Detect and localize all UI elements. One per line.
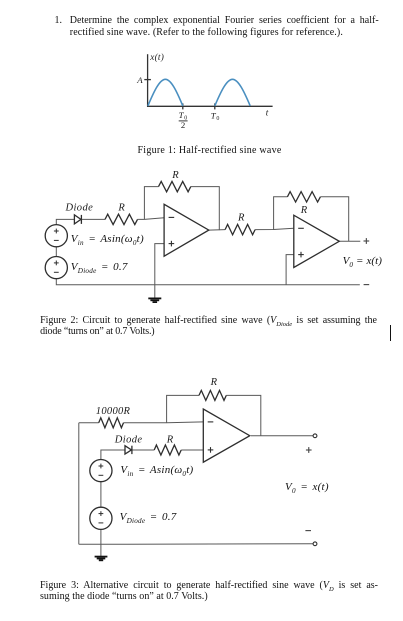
wire: U1 output to mid resistor and to U2 inverting input — [209, 228, 294, 230]
problem text line 2 — [70, 28, 343, 38]
voltage source Vin fig3 — [90, 460, 112, 482]
voltage source VDiode fig3 — [90, 507, 112, 529]
output - terminal circle fig3 — [313, 542, 317, 546]
label VDiode fig3 — [120, 512, 177, 523]
resistor R series input — [105, 214, 138, 224]
wire: VDiode to bottom rail — [100, 529, 102, 544]
wire: U2 feedback right side down to output — [320, 197, 348, 242]
label Vin fig3 — [120, 465, 193, 476]
x-axis (t axis) of figure 1 — [147, 105, 273, 107]
label x(t) — [149, 52, 164, 62]
wire: diode branch to U3 non-inverting input — [101, 450, 203, 459]
caption figure 1 — [138, 146, 282, 156]
wire: input node from sources through diode branch to op-amp U1 inverting input — [56, 218, 164, 225]
resistor R feedback U2 — [287, 192, 320, 202]
diode D2 — [125, 446, 132, 454]
wire: U1 non-inverting input to ground node — [155, 244, 164, 285]
ground — [148, 285, 161, 302]
svg-text:R: R — [166, 434, 174, 445]
label t — [266, 108, 269, 118]
output + terminal label fig2 — [364, 238, 370, 244]
resistor R between op-amps — [225, 224, 255, 234]
label A — [136, 75, 143, 85]
label T0 — [211, 110, 220, 122]
ground fig3 — [95, 544, 108, 560]
label R between op-amps — [237, 213, 245, 224]
y-axis of figure 1 — [147, 54, 149, 107]
wire: between source Vin and source VDiode — [55, 247, 57, 257]
output - label fig3 — [305, 530, 311, 532]
svg-text:10000R: 10000R — [96, 406, 131, 417]
sine hump 1 — [148, 79, 183, 106]
label R feedback U2 — [300, 205, 308, 216]
amplitude tick A — [144, 79, 151, 81]
caption figure 3 line 1 — [40, 581, 378, 591]
wire: left rail of figure 3 — [78, 423, 80, 545]
wire: U3 feedback right side down to output — [226, 395, 260, 435]
caption figure 3 line 2 — [40, 592, 208, 602]
label T0/2 fraction — [179, 110, 188, 130]
wire: U2 non-inverting input down to bottom rail — [286, 255, 294, 285]
wire: U2 output to + terminal — [339, 240, 360, 242]
diode D1 — [74, 215, 81, 224]
wire: U3 feedback left vertical — [167, 395, 199, 422]
label Vin = Asin(w0t) — [71, 234, 144, 245]
output + label fig3 — [306, 447, 312, 453]
label Diode fig3 — [114, 434, 143, 445]
wire: U1 feedback right side down to output — [191, 187, 220, 231]
caption figure 2 line 1 — [40, 316, 377, 326]
tick T0/2 — [182, 103, 184, 109]
output + terminal circle fig3 — [313, 434, 317, 438]
resistor R feedback U3 — [199, 390, 226, 400]
wire: 10000R branch to U3 inverting input — [79, 421, 204, 424]
label VDiode = 0.7 — [71, 262, 128, 273]
resistor R diode branch fig3 — [154, 445, 181, 455]
op-amp U1 — [164, 204, 209, 256]
voltage source VDiode (0.7V) — [45, 257, 67, 279]
wire: bottom rail — [56, 279, 360, 285]
label 10000R — [96, 406, 131, 417]
label R feedback U1 — [171, 170, 179, 181]
op-amp U2 — [294, 215, 340, 267]
label V0 = x(t) fig3 — [285, 482, 329, 493]
label Diode — [65, 202, 94, 213]
label R series input — [117, 202, 125, 213]
problem item number — [55, 16, 63, 26]
label R feedback U3 — [210, 377, 218, 388]
tick T0 — [214, 103, 216, 109]
caption figure 2 line 2 — [40, 327, 154, 337]
text cursor bar — [390, 325, 391, 341]
problem text line 1 — [70, 16, 379, 26]
label R diode branch fig3 — [166, 434, 174, 445]
label V0 = x(t) fig2 — [343, 256, 382, 267]
voltage source Vin (Asin(w0t)) — [45, 225, 67, 247]
svg-text:Diode: Diode — [114, 434, 143, 445]
wire: bottom rail fig3 — [79, 543, 313, 546]
output - terminal label fig2 — [364, 284, 370, 286]
op-amp U3 — [203, 409, 250, 462]
wire: U2 feedback left vertical — [274, 197, 288, 230]
wire: between source Vin and source VDiode fig3 — [100, 482, 102, 508]
wire: U1 feedback left vertical — [144, 187, 158, 220]
sine hump 2 — [215, 79, 250, 106]
wire: U3 output to + terminal circle — [251, 435, 313, 437]
resistor R feedback U1 — [159, 181, 191, 191]
resistor 10000R — [99, 418, 124, 428]
svg-text:R: R — [210, 377, 218, 388]
